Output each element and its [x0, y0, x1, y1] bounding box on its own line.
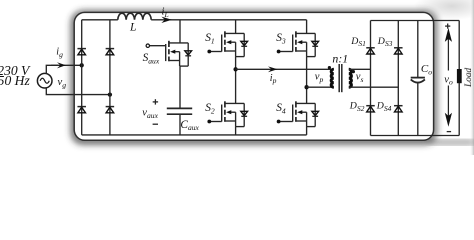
output diode D_S1 [366, 48, 375, 54]
node A junction dot [233, 67, 237, 71]
label S4 [276, 102, 286, 115]
current arrow i_p [268, 66, 278, 72]
transformer core [339, 64, 342, 92]
label L [129, 21, 136, 34]
wire right leg lower stem [306, 127, 308, 135]
current arrow i_L [161, 17, 172, 23]
wire AC source top lead [46, 65, 81, 74]
output diode D_S3 [394, 48, 403, 54]
label D_S4 [376, 101, 392, 113]
input bridge diode bottom-left [77, 107, 86, 113]
input bridge diode bottom-right [106, 107, 115, 113]
label i_p [270, 73, 277, 85]
label D_S1 [350, 36, 366, 48]
wire bridge left branch [81, 20, 83, 135]
transformer primary winding [331, 69, 334, 87]
shadow under output wires [428, 140, 474, 146]
label v_s [356, 72, 364, 84]
capacitor C_aux [167, 108, 192, 114]
wire left leg lower stem [235, 127, 237, 135]
input bridge diode top-right [106, 49, 115, 55]
switch S_aux MOSFET [146, 41, 192, 66]
output diode D_S2 [366, 106, 375, 112]
wire S_aux to C_aux [179, 66, 181, 108]
label D_S2 [349, 101, 365, 113]
label plus v_o [445, 24, 450, 29]
voltage arrow v_o bottom [445, 86, 452, 127]
output diode D_S4 [394, 106, 403, 112]
wire output rectifier left branch [370, 21, 372, 136]
transformer primary polarity dot [328, 66, 331, 69]
wire left leg upper stem [235, 20, 237, 34]
wire output top rail [371, 20, 460, 22]
wire node B to primary bottom [307, 86, 334, 88]
wire right leg middle [306, 57, 308, 104]
wire AC source bottom lead [46, 88, 110, 95]
wire bottom rail primary side [82, 134, 307, 136]
label C_aux [180, 119, 199, 132]
wire bridge right branch [109, 20, 111, 135]
load box [457, 69, 462, 83]
wire left leg middle [235, 57, 237, 104]
label v_o [444, 74, 453, 86]
label S_aux [143, 52, 160, 65]
node B junction dot [304, 85, 308, 89]
switch S1 MOSFET [207, 31, 247, 56]
wire right leg upper stem [306, 20, 308, 34]
junction dot bridge left mid [80, 63, 84, 67]
label S1 [205, 32, 214, 45]
voltage arrow v_o top [445, 28, 452, 71]
label v_g [58, 77, 67, 89]
wire secondary top lead [349, 68, 371, 70]
converter enclosure box [74, 12, 433, 140]
inductor L [118, 13, 151, 20]
current arrow i_g [51, 62, 66, 68]
wire output rectifier right branch [397, 21, 399, 136]
label minus v_o [447, 131, 451, 133]
right page edge shading [470, 0, 474, 155]
label v_aux [142, 108, 158, 120]
wire output bottom rail [371, 135, 460, 137]
svg-text:L: L [129, 21, 136, 34]
svg-text:Load: Load [464, 67, 474, 87]
switch S3 MOSFET [277, 31, 319, 56]
page background [0, 0, 474, 155]
wire S_aux stem from top rail [179, 20, 181, 43]
wire C_aux to bottom rail [179, 114, 181, 135]
label i_L [162, 7, 169, 19]
label n:1 [332, 52, 348, 66]
svg-text:50 Hz: 50 Hz [0, 73, 30, 88]
junction dot bridge right mid [108, 92, 112, 96]
label S2 [205, 102, 215, 115]
label D_S3 [377, 36, 393, 48]
label v_p [315, 72, 324, 84]
label C_o [421, 63, 432, 76]
switch S4 MOSFET [277, 101, 319, 126]
input bridge diode top-left [77, 49, 86, 55]
shadow blob top right of page [414, 0, 474, 20]
label 230 V 50 Hz [0, 63, 31, 88]
wire top rail after inductor [151, 19, 306, 21]
wire load branch [458, 21, 460, 136]
switch S2 MOSFET [207, 101, 247, 126]
label minus v_aux [153, 123, 158, 125]
label Load [464, 67, 474, 87]
converter enclosure box shadow [71, 10, 439, 145]
label S3 [276, 32, 286, 45]
label i_g [56, 47, 63, 59]
transformer secondary polarity dot [352, 70, 355, 73]
wire secondary bottom lead [349, 86, 399, 88]
label plus v_aux [153, 99, 158, 104]
wire node A to primary top [236, 68, 334, 70]
svg-text:n:1: n:1 [332, 52, 348, 66]
wire top rail left segment [82, 19, 118, 21]
transformer secondary winding [349, 69, 352, 87]
AC source vg [37, 73, 52, 88]
capacitor C_o [411, 21, 425, 136]
